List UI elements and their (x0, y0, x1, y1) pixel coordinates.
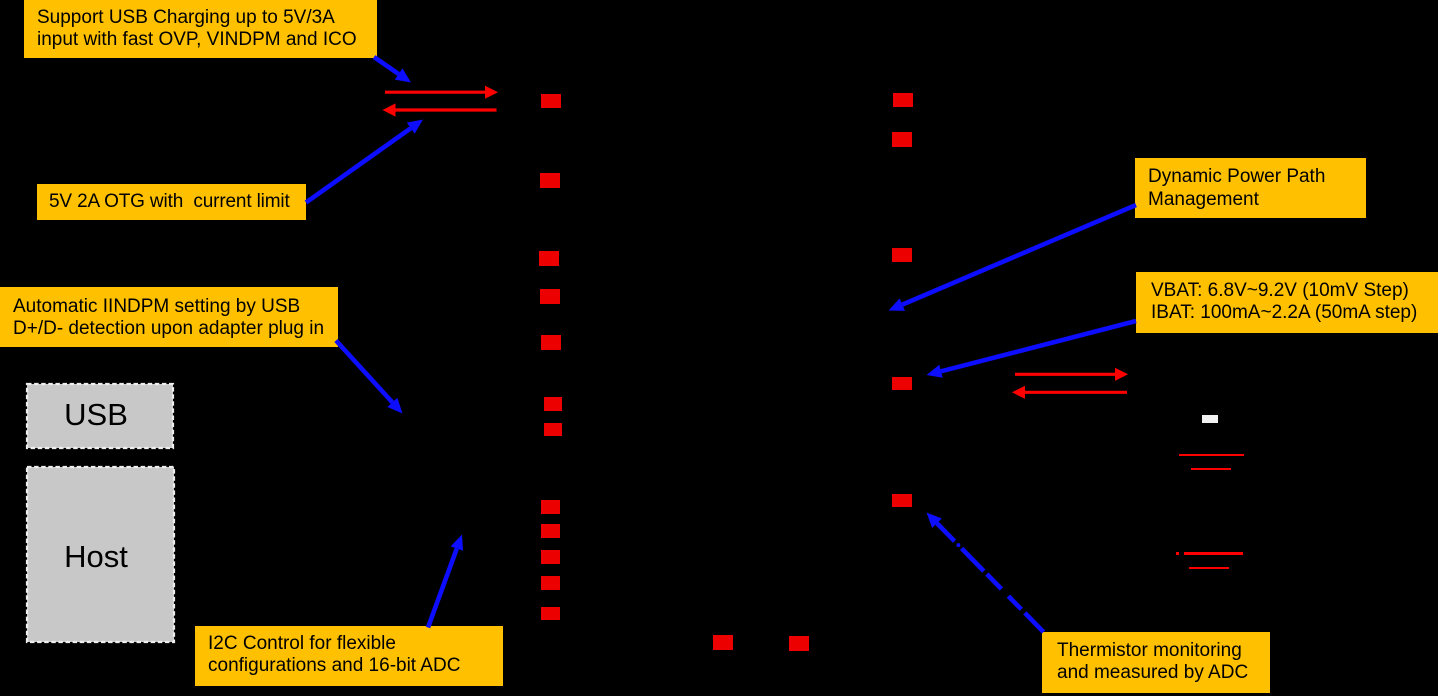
pin CE (541, 335, 561, 350)
blue arrow: Thermistor callout to TS pin (927, 513, 1044, 633)
pin PGND (789, 636, 809, 651)
pin DM (544, 423, 562, 436)
callout: 5V 2A OTG (37, 184, 306, 220)
red arrow: BAT discharge (1012, 386, 1127, 399)
battery cell 1 short plate (1191, 468, 1231, 470)
pin SCL (541, 500, 560, 514)
pin STAT (540, 289, 560, 304)
battery positive cap (1202, 415, 1218, 423)
red arrow: VBUS in (385, 86, 498, 99)
callout: Dynamic Power Path (1135, 158, 1366, 218)
pin DP (544, 397, 562, 411)
pin INT (541, 550, 560, 564)
callout: Automatic IINDPM (0, 287, 338, 347)
pin BTST (892, 132, 912, 147)
callout: Support USB Charging (24, 0, 377, 58)
Host box (24, 464, 178, 645)
pin GND (713, 635, 733, 650)
blue arrow: Dynamic Power Path callout to power path (889, 205, 1137, 311)
pin SW (893, 93, 913, 107)
pin PMID (540, 173, 560, 188)
blue arrow: VBAT/IBAT callout to BAT pin (927, 321, 1137, 378)
pin SDA (541, 524, 560, 538)
pin PG (541, 576, 560, 590)
callout: Thermistor (1042, 632, 1270, 693)
pin VBUS (541, 94, 561, 108)
pin QON (541, 607, 560, 620)
USB box (24, 381, 176, 451)
red arrow: BAT charge (1015, 368, 1128, 381)
callout: I2C Control (195, 626, 503, 686)
battery cell 2 short plate (1189, 567, 1229, 569)
pin BAT (892, 377, 912, 390)
pin REGN (539, 251, 559, 266)
battery cell 1 long plate (1179, 454, 1244, 457)
red arrow: VBUS out (383, 103, 497, 116)
battery cell 2 long plate (1184, 552, 1243, 555)
pin SYS (892, 248, 912, 262)
callout: VBAT IBAT (1136, 272, 1438, 333)
pin TS (892, 494, 912, 507)
battery cell 2 plate tick (1176, 552, 1179, 554)
blue arrow: I2C callout to I2C block (428, 535, 463, 628)
blue arrow: IINDPM callout to detection block (336, 341, 403, 414)
blue arrow: Support-USB callout to VBUS arrows (374, 57, 411, 83)
blue arrow: OTG callout to VBUS arrows (306, 120, 423, 203)
